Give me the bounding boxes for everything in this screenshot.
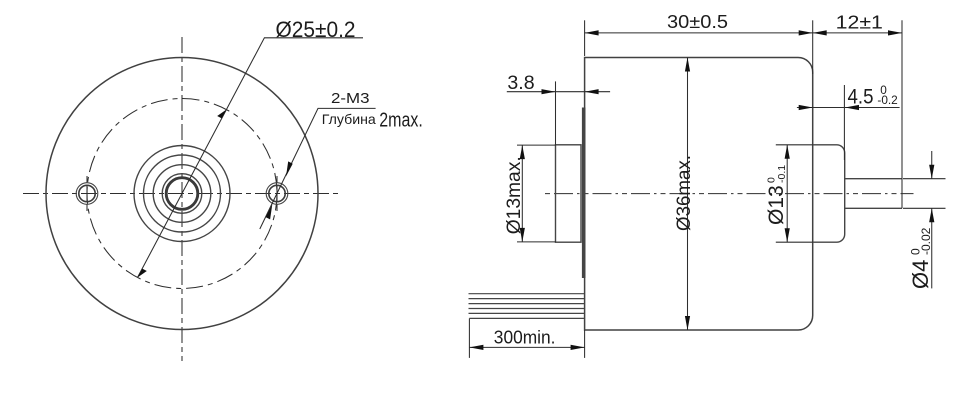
inner circle r38.5 [144,155,221,232]
svg-text:300min.: 300min. [494,328,556,348]
svg-text:-0.1: -0.1 [776,165,788,183]
flange plate (thick) [582,108,586,279]
svg-text:12±1: 12±1 [836,13,883,33]
inner circle r28.8 [153,165,211,223]
extension lines [517,145,556,242]
mounting hole right [266,176,288,211]
svg-text:3.8: 3.8 [507,72,534,94]
arrow at flange (outside, pointing left) [585,89,599,94]
arrow lower (points to hole) [266,204,273,219]
arrow upper (points to hole) [286,161,293,176]
bolt circle (dash-dot) [87,99,277,289]
arrow left [585,30,599,35]
svg-text:2max.: 2max. [379,109,423,131]
right boss [813,145,845,242]
arrow right [888,30,902,35]
arrow top (outside, pointing down) [929,165,934,179]
arrow at body face (outside, pointing right) [799,105,813,110]
horizontal centerline [545,193,914,195]
dimension Ø25±0.2 (bolt circle) [138,17,364,278]
extension line (boss face up) [555,81,557,144]
extension lines (shaft edges extended) [903,179,946,209]
arrow right [799,30,813,35]
dimension Ø36max. (body diameter) [674,58,695,331]
vertical centerline [181,37,183,361]
leader line [260,108,376,229]
label Ø13 0/-0.1 (rotated, stacked tolerance) [765,165,788,225]
svg-text:Ø25±0.2: Ø25±0.2 [276,17,356,42]
arrow top [785,145,790,159]
boss circle [134,146,230,242]
arrow upper-right [217,110,226,119]
svg-text:-0.2: -0.2 [877,93,897,107]
dimension line [469,346,584,348]
dimension Ø13max. (left boss) [504,145,556,242]
extension line right (merged with shaft end face) [901,20,903,208]
svg-text:Ø13: Ø13 [765,185,788,225]
arrow at boss face (outside, pointing left) [845,105,859,110]
leader/dimension line [138,38,364,278]
extension line at boss face [843,85,845,160]
svg-text:Глубина: Глубина [322,111,376,127]
arrow bottom [685,316,690,330]
arrow top [520,145,525,159]
arrow bottom (outside, pointing up) [929,208,934,222]
outer body circle [46,58,318,330]
extension line left [584,20,586,56]
svg-text:2-M3: 2-M3 [331,90,370,107]
dimension line upper tail [931,151,933,179]
extension line left [468,318,470,358]
dimension line [813,32,902,34]
dimension 30±0.5 (body length) [585,11,813,74]
arrow bottom [520,228,525,242]
dimension 3.8 (boss step) [507,72,610,145]
leader 2-M3 (mounting holes) [260,90,423,229]
lead wires [469,294,585,319]
dimension Ø4 0/-0.02 (shaft diameter) [903,151,946,289]
shaft [845,179,902,209]
dimension line [585,32,813,34]
arrow left [469,345,483,350]
arrow right [571,345,585,350]
horizontal centerline [23,193,338,195]
mounting hole left [76,176,98,211]
dimension 12±1 (shaft extension) [813,13,902,209]
dimension line lower tail [931,208,933,288]
motor body outline [585,58,813,331]
dimension Ø13 0/-0.1 (right boss) [765,145,813,242]
inner circle r19.8 [162,174,202,214]
extension line right [812,20,814,74]
dimension line [521,145,523,242]
svg-text:-0.02: -0.02 [919,227,933,255]
label Ø4 0/-0.02 (rotated, stacked tolerance) [908,227,933,289]
arrow left [813,30,827,35]
extension line right (body face down) [584,330,586,358]
arrow at boss face (outside, pointing right) [542,89,556,94]
svg-text:Ø36max.: Ø36max. [674,155,695,231]
dimension 300min. (lead wire length) [469,318,584,358]
dimension line [786,145,788,242]
dimension line [687,58,689,331]
shaft circle (bold) [166,178,198,210]
label 4.5 0/-0.2 (stacked tolerance) [848,83,898,109]
arrow lower-left [138,269,147,278]
extension lines [776,145,813,242]
left boss (bearing hub) [556,145,582,242]
arrow bottom [785,228,790,242]
dimension 4.5 0/-0.2 (right boss length) [797,83,900,160]
svg-text:30±0.5: 30±0.5 [667,11,728,32]
svg-text:4.5: 4.5 [848,86,874,109]
svg-text:Ø13max.: Ø13max. [504,156,525,234]
dimension line [797,107,900,109]
arrow top [685,58,690,72]
svg-text:Ø4: Ø4 [908,260,933,289]
dimension line [507,91,610,93]
